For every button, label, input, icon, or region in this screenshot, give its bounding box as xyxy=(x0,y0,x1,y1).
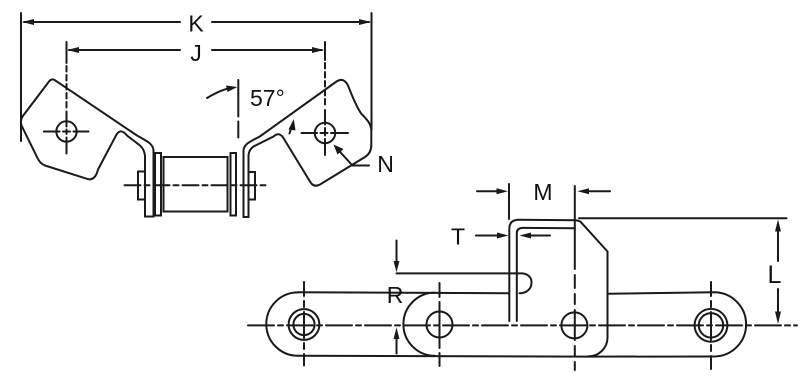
K extension line right xyxy=(371,13,373,130)
svg-text:M: M xyxy=(533,179,552,205)
R reference line + bend curl xyxy=(397,273,532,293)
far-left roller centerline xyxy=(303,282,305,366)
chain centerline (front view) xyxy=(125,184,268,186)
left roller centerline xyxy=(439,283,441,366)
right hole circle xyxy=(315,123,335,143)
svg-text:R: R xyxy=(387,282,404,308)
K arrow left xyxy=(22,19,34,25)
right roller centerline xyxy=(710,282,712,369)
svg-text:T: T xyxy=(451,224,465,250)
left hole crosshair vertical xyxy=(66,112,68,154)
right roller inner circle xyxy=(699,313,723,337)
J arrow right xyxy=(312,47,324,53)
right plate bottom edge xyxy=(588,356,714,358)
right pin boss xyxy=(249,172,256,200)
right roller outer circle xyxy=(695,309,728,342)
right link plate xyxy=(231,153,237,216)
L dimension xyxy=(777,230,779,261)
57 deg vertical reference line xyxy=(237,80,239,138)
svg-text:K: K xyxy=(188,11,204,37)
middle roller centerline / M right extension xyxy=(574,186,576,370)
far-left roller outer circle xyxy=(289,309,320,340)
right link plate end cap xyxy=(714,292,746,356)
svg-text:57°: 57° xyxy=(250,85,285,111)
attachment link plate end cap xyxy=(403,293,435,356)
57 deg arc arrow left xyxy=(207,88,233,99)
left pin boss xyxy=(138,172,145,200)
svg-text:J: J xyxy=(190,40,202,66)
right hole crosshair horizontal xyxy=(302,132,349,134)
K arrow right xyxy=(359,19,371,25)
chain horizontal centerline xyxy=(248,324,797,326)
svg-text:L: L xyxy=(768,261,782,289)
M dimension xyxy=(477,190,497,192)
middle roller circle xyxy=(561,312,587,338)
N leader arrow xyxy=(336,148,369,166)
svg-text:N: N xyxy=(377,151,394,177)
J/hole centerline left (dashed) xyxy=(66,42,68,63)
right hole crosshair vertical xyxy=(324,110,326,155)
J/hole centerline right (dashed) xyxy=(324,42,326,60)
far-left link plate end cap xyxy=(266,292,298,355)
left link plate xyxy=(155,153,161,216)
K extension line left xyxy=(20,13,22,141)
far-left roller inner circle xyxy=(293,314,314,335)
left plates top edge xyxy=(298,292,509,293)
right plate top edge xyxy=(608,292,715,294)
K dimension line xyxy=(24,21,180,23)
left hole crosshair horizontal xyxy=(44,131,89,133)
J arrow left xyxy=(67,47,79,53)
right plate left edge + corner xyxy=(588,252,608,357)
left wing plate outline xyxy=(21,79,154,216)
T dimension xyxy=(476,235,498,237)
plates bottom edge xyxy=(298,355,588,358)
roller (end view) xyxy=(164,157,228,212)
J dimension line xyxy=(69,49,180,51)
left roller circle xyxy=(427,312,453,338)
M left extension line xyxy=(508,184,510,219)
attachment outer profile xyxy=(509,220,607,321)
left hole circle xyxy=(56,121,76,141)
right wing plate outline xyxy=(244,80,372,217)
57 deg arrow at plate edge xyxy=(290,123,294,134)
L reference top line xyxy=(579,217,787,219)
R dimension arrows xyxy=(396,241,398,264)
attachment inner profile xyxy=(517,228,575,321)
